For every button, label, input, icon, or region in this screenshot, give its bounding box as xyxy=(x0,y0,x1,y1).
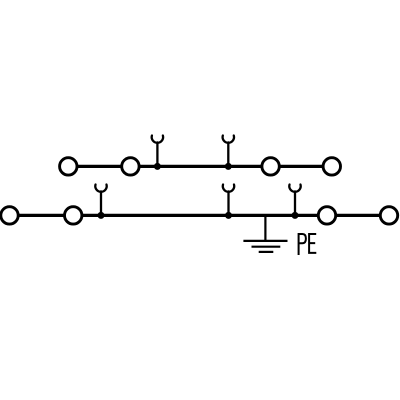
terminal circle 1.2 xyxy=(122,158,139,175)
junction dot J4 lower xyxy=(225,212,232,219)
junction dot J3 lower xyxy=(98,212,105,219)
clamp contact fork F2 upper xyxy=(223,136,234,167)
terminal circle 2.3 xyxy=(318,207,335,224)
wire lower bus L2 xyxy=(10,214,390,217)
terminal circle 1.4 xyxy=(323,158,340,175)
terminal circle 1.1 xyxy=(60,158,77,175)
wire upper bus L1 xyxy=(68,165,332,168)
terminal circle 1.3 xyxy=(262,158,279,175)
junction dot J2 upper xyxy=(225,163,232,170)
clamp contact fork F3 lower xyxy=(95,185,106,216)
terminal circle 2.4 xyxy=(380,207,397,224)
ground PE symbol xyxy=(243,215,287,252)
terminal circle 2.2 xyxy=(65,207,82,224)
terminal circle 2.1 xyxy=(1,207,18,224)
label PE xyxy=(299,234,316,254)
clamp contact fork F5 lower xyxy=(289,185,300,216)
clamp contact fork F1 upper xyxy=(152,136,163,167)
clamp contact fork F4 lower xyxy=(223,185,234,216)
junction dot J1 upper xyxy=(154,163,161,170)
junction dot J5 lower xyxy=(292,212,299,219)
